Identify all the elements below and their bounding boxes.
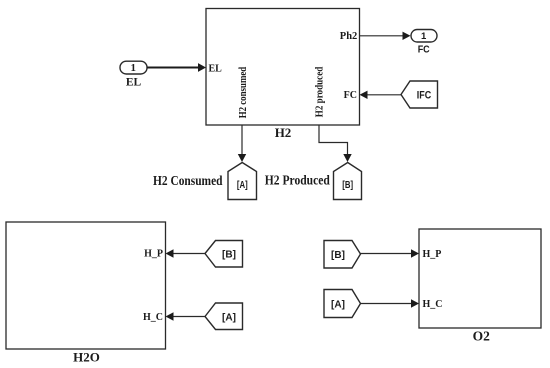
svg-text:EL: EL	[126, 77, 142, 89]
from tag B (O2)	[324, 241, 361, 269]
outport block 1 (FC)	[411, 30, 437, 43]
from tag A (H2O)	[205, 303, 243, 330]
from tag A (O2)	[324, 290, 361, 318]
svg-text:[B]: [B]	[222, 250, 236, 261]
subsystem block H2O	[6, 222, 166, 349]
svg-text:1: 1	[131, 62, 137, 74]
svg-text:H2 produced: H2 produced	[315, 67, 326, 118]
svg-text:H_C: H_C	[423, 299, 443, 310]
svg-text:1: 1	[421, 31, 427, 42]
svg-text:FC: FC	[418, 43, 430, 55]
svg-text:H_C: H_C	[143, 312, 163, 323]
svg-text:H2: H2	[275, 125, 292, 140]
svg-text:H2 Produced: H2 Produced	[265, 173, 330, 188]
svg-text:H2 consumed: H2 consumed	[238, 67, 249, 119]
svg-text:FC: FC	[344, 90, 357, 101]
svg-text:[A]: [A]	[331, 300, 345, 311]
wire IFC to FC port	[360, 91, 402, 99]
subsystem block H2	[206, 9, 360, 126]
svg-text:IFC: IFC	[417, 89, 431, 101]
svg-text:EL: EL	[209, 63, 223, 74]
wire Ph2 to outport	[360, 32, 411, 40]
svg-text:H_P: H_P	[144, 249, 163, 260]
svg-text:H_P: H_P	[423, 249, 442, 260]
svg-text:[A]: [A]	[237, 180, 248, 191]
svg-text:H2 Consumed: H2 Consumed	[153, 173, 223, 188]
wire B to H_P (O2)	[361, 249, 420, 257]
inport block 1 (EL)	[120, 61, 147, 74]
subsystem block O2	[419, 229, 541, 328]
goto tag A	[228, 163, 257, 200]
svg-text:H2O: H2O	[73, 350, 100, 365]
svg-text:[A]: [A]	[222, 313, 236, 324]
svg-text:[B]: [B]	[331, 250, 345, 261]
from tag IFC	[401, 81, 438, 108]
wire H2 consumed to goto A	[238, 125, 246, 162]
from tag B (H2O)	[205, 241, 243, 268]
goto tag B	[334, 163, 362, 200]
wire A to H_C (O2)	[361, 299, 420, 307]
wire EL to H2 block	[147, 63, 206, 72]
svg-text:[B]: [B]	[342, 180, 353, 191]
wire from B to H_P (H2O)	[166, 249, 206, 257]
svg-text:O2: O2	[473, 329, 491, 344]
wire from A to H_C (H2O)	[166, 312, 206, 320]
wire H2 produced to goto B	[319, 125, 352, 162]
svg-text:Ph2: Ph2	[340, 31, 358, 42]
